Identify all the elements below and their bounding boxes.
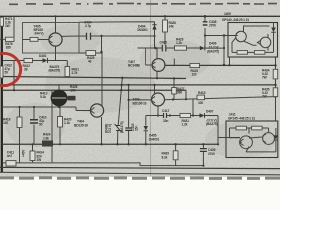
svg-text:1.2k: 1.2k (182, 123, 188, 127)
svg-text:(BA375): (BA375) (120, 122, 124, 133)
svg-text:50: 50 (5, 71, 9, 75)
svg-text:C436: C436 (160, 41, 168, 45)
svg-text:BC148B: BC148B (128, 64, 141, 68)
svg-text:1N4001: 1N4001 (137, 28, 148, 32)
svg-text:D407: D407 (206, 110, 214, 114)
svg-text:2.7k: 2.7k (72, 71, 78, 75)
svg-text:GP140 -448 25 1 31: GP140 -448 25 1 31 (222, 18, 249, 22)
svg-text:15n: 15n (163, 119, 168, 123)
svg-text:5.1k: 5.1k (40, 95, 46, 99)
svg-text:39: 39 (24, 68, 28, 72)
svg-text:2700: 2700 (209, 24, 216, 28)
svg-text:120: 120 (3, 121, 8, 125)
svg-text:-244 V): -244 V) (34, 32, 44, 36)
svg-text:(BA375): (BA375) (207, 49, 218, 53)
svg-text:D402: D402 (39, 54, 47, 58)
svg-text:43: 43 (88, 60, 92, 64)
svg-text:172 V): 172 V) (108, 124, 112, 133)
svg-text:4n7: 4n7 (7, 154, 13, 158)
svg-text:(BA375): (BA375) (206, 122, 217, 126)
svg-text:3.7µ: 3.7µ (85, 24, 91, 28)
svg-text:1.8k: 1.8k (43, 136, 49, 140)
svg-text:+45V: +45V (22, 149, 26, 157)
svg-text:GP145 -448 25 1 31: GP145 -448 25 1 31 (228, 117, 255, 121)
svg-text:50: 50 (39, 123, 43, 127)
svg-text:100: 100 (198, 101, 203, 105)
svg-text:100: 100 (71, 89, 76, 93)
svg-text:820: 820 (6, 45, 11, 49)
svg-text:15n: 15n (134, 126, 138, 131)
svg-text:8.2k: 8.2k (162, 155, 168, 159)
svg-text:R415: R415 (198, 91, 206, 95)
svg-text:14k: 14k (169, 25, 174, 29)
svg-text:BD135-16: BD135-16 (74, 123, 88, 127)
svg-text:110: 110 (192, 72, 197, 76)
svg-text:1N4001: 1N4001 (149, 137, 160, 141)
svg-text:1409: 1409 (224, 12, 231, 16)
svg-text:1.1k: 1.1k (64, 121, 70, 125)
svg-text:1.2k: 1.2k (176, 41, 182, 45)
svg-text:(BA375): (BA375) (49, 69, 60, 73)
svg-text:C417: C417 (162, 109, 170, 113)
svg-text:BD136-16: BD136-16 (133, 101, 147, 105)
svg-text:680: 680 (177, 91, 182, 95)
svg-text:2700: 2700 (208, 152, 215, 156)
